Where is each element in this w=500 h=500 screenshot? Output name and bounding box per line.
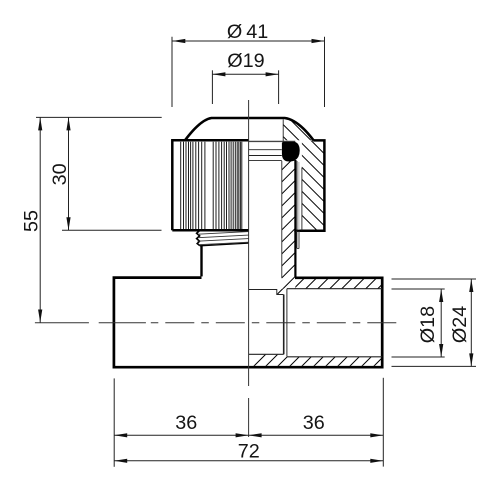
svg-text:55: 55 <box>21 210 43 232</box>
svg-text:36: 36 <box>303 412 325 434</box>
svg-text:72: 72 <box>238 440 260 462</box>
svg-text:36: 36 <box>175 412 197 434</box>
svg-text:Ø24: Ø24 <box>449 306 471 343</box>
svg-text:Ø 41: Ø 41 <box>227 21 268 43</box>
svg-text:Ø19: Ø19 <box>227 50 264 72</box>
svg-text:30: 30 <box>49 163 71 185</box>
svg-text:Ø18: Ø18 <box>417 306 439 343</box>
